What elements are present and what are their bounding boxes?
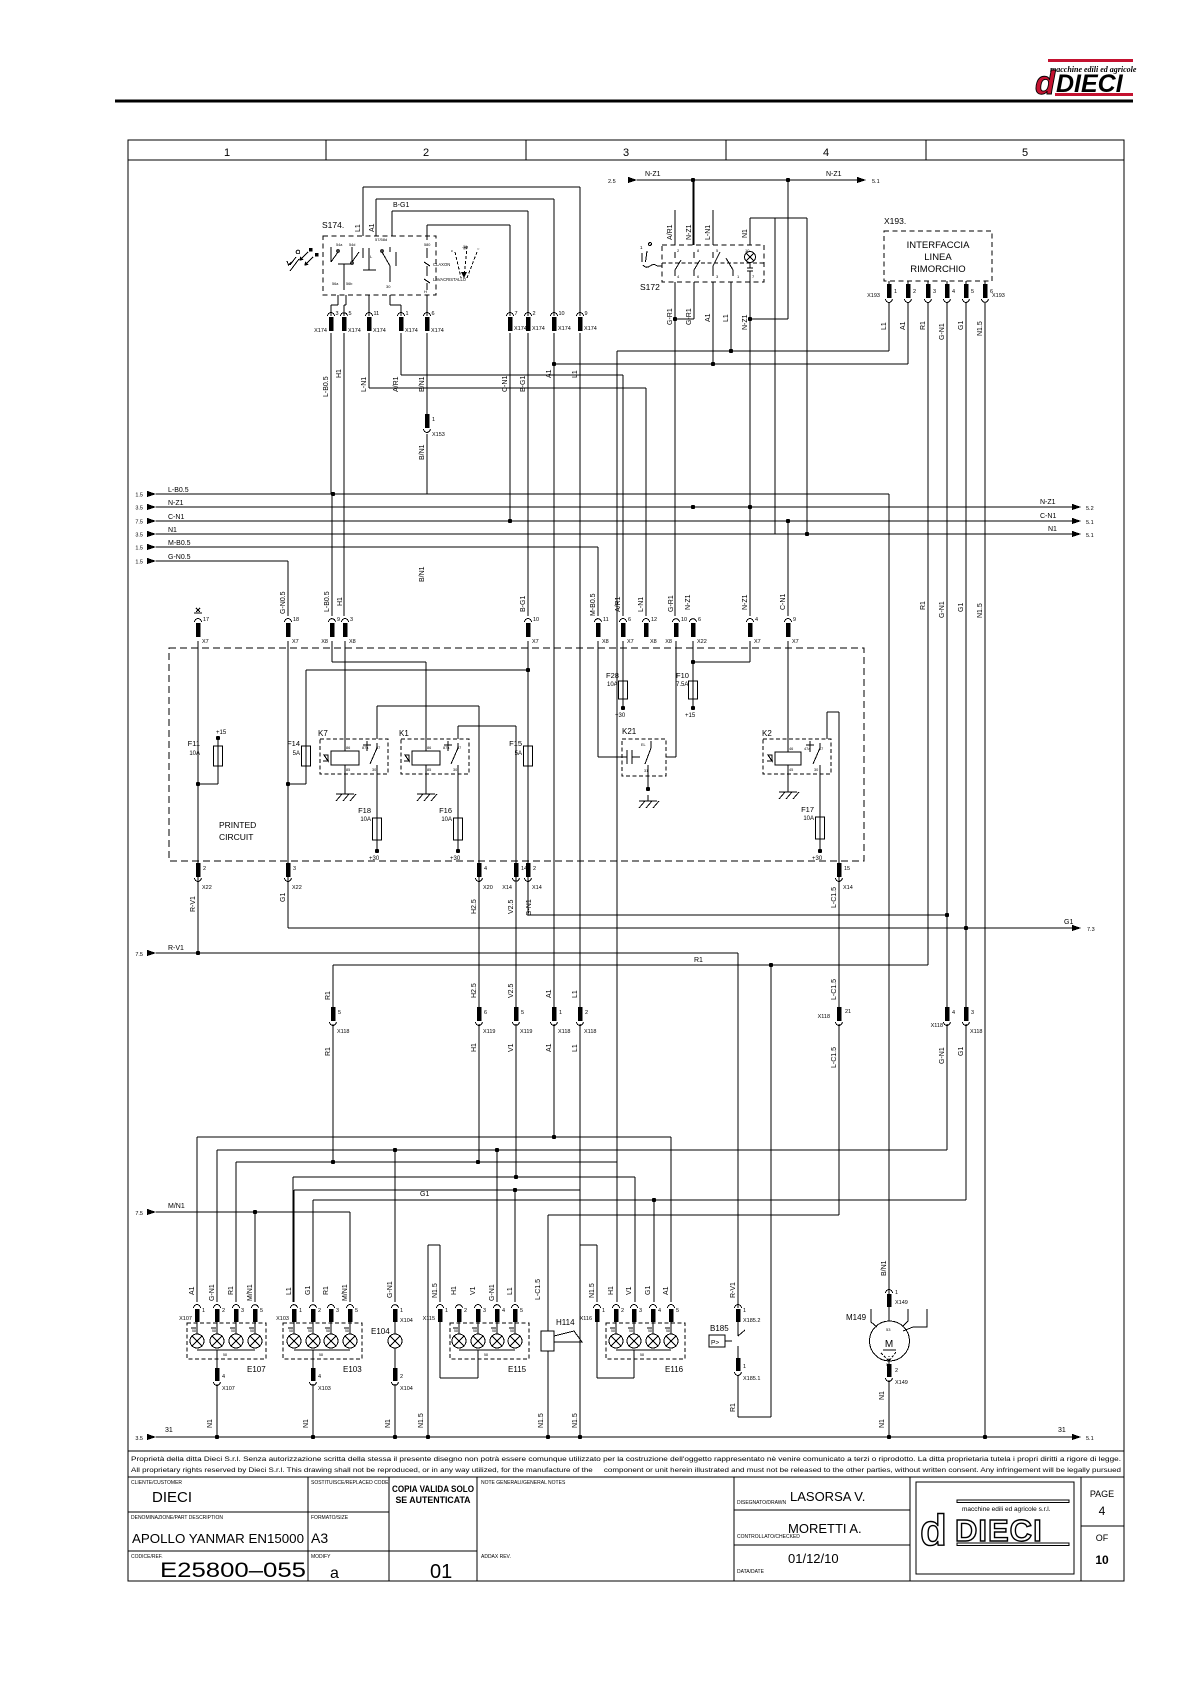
- svg-text:1: 1: [743, 1364, 746, 1370]
- svg-text:G1: G1: [645, 1286, 652, 1295]
- svg-text:580: 580: [424, 243, 430, 247]
- svg-text:L1: L1: [881, 322, 888, 330]
- svg-text:X107: X107: [222, 1386, 235, 1392]
- svg-text:H1: H1: [337, 597, 344, 606]
- connector X118-5: [325, 991, 349, 1056]
- lamp cluster E116: [580, 1283, 685, 1378]
- svg-text:G-N1: G-N1: [939, 601, 946, 618]
- bus G1 to 7.3: [288, 877, 1095, 933]
- wire X22-6 to X7-4 jog: [693, 641, 750, 662]
- svg-text:1: 1: [559, 1010, 562, 1016]
- svg-text:M/N1: M/N1: [342, 1284, 349, 1301]
- svg-text:57/58d: 57/58d: [375, 237, 387, 242]
- svg-text:X118: X118: [931, 1023, 943, 1029]
- wire H1 X174-5 to X8-3: [343, 333, 345, 616]
- svg-text:4: 4: [952, 1010, 955, 1016]
- svg-text:4: 4: [502, 1308, 505, 1314]
- svg-text:9: 9: [337, 617, 340, 623]
- wire drop to E116 via x617: [616, 351, 618, 1162]
- svg-text:X174: X174: [532, 326, 545, 332]
- svg-text:L1: L1: [723, 314, 730, 322]
- svg-text:A3: A3: [311, 1530, 328, 1546]
- connector X7-18: [285, 617, 300, 645]
- svg-text:6: 6: [628, 617, 631, 623]
- svg-text:COPIA VALIDA SOLO: COPIA VALIDA SOLO: [392, 1484, 474, 1494]
- bus M/N1: [135, 1203, 350, 1302]
- bus N-Z1: [135, 499, 1093, 512]
- svg-text:58: 58: [473, 1329, 477, 1333]
- svg-text:N1: N1: [1048, 526, 1057, 533]
- svg-text:11: 11: [603, 617, 609, 623]
- bus G-N0.5: [135, 554, 288, 616]
- svg-text:E103: E103: [343, 1365, 362, 1374]
- svg-text:B185: B185: [710, 1324, 729, 1333]
- svg-text:9: 9: [793, 617, 796, 623]
- top rule: [115, 100, 1133, 103]
- svg-text:M/N1: M/N1: [168, 1203, 185, 1210]
- svg-text:C-N1: C-N1: [168, 514, 184, 521]
- svg-text:+30: +30: [812, 856, 823, 862]
- svg-text:2: 2: [585, 1010, 588, 1016]
- svg-text:X193: X193: [992, 293, 1005, 299]
- svg-text:A/R1: A/R1: [667, 224, 674, 240]
- svg-text:N1.5: N1.5: [977, 603, 984, 618]
- svg-text:N1.5: N1.5: [432, 1283, 439, 1298]
- svg-text:3: 3: [639, 1308, 642, 1314]
- svg-text:X185.1: X185.1: [743, 1376, 760, 1382]
- svg-text:B-G1: B-G1: [393, 202, 409, 209]
- svg-text:F15: F15: [509, 739, 522, 748]
- svg-text:X118: X118: [337, 1029, 349, 1035]
- svg-text:G-N1: G-N1: [489, 1284, 496, 1301]
- wire labels below X174: [323, 369, 579, 397]
- wire G-R1 S172-6 jog: [675, 282, 694, 325]
- svg-text:3: 3: [336, 311, 339, 317]
- connector X8-9: [321, 494, 340, 645]
- svg-text:4: 4: [952, 289, 955, 295]
- svg-text:F14: F14: [287, 739, 300, 748]
- connector X8-10: [665, 595, 687, 645]
- connector X8-3: [337, 597, 356, 645]
- motor M149: [846, 1309, 927, 1367]
- svg-text:RIMORCHIO: RIMORCHIO: [910, 264, 965, 275]
- wire A1 from S174 to X174-10: [369, 199, 554, 316]
- svg-text:R1: R1: [323, 1286, 330, 1295]
- svg-text:5.1: 5.1: [1086, 1436, 1094, 1442]
- svg-text:N1: N1: [385, 1419, 392, 1428]
- horn H114: [535, 1215, 582, 1439]
- bus L-B0.5: [135, 487, 889, 499]
- connector X118-3: [958, 1007, 982, 1056]
- svg-text:58: 58: [611, 1329, 615, 1333]
- svg-text:A/R1: A/R1: [393, 376, 400, 392]
- svg-text:INTERFACCIA: INTERFACCIA: [907, 240, 970, 251]
- svg-text:X185.2: X185.2: [743, 1318, 760, 1324]
- connector X107-4: [207, 1368, 235, 1439]
- svg-text:10A: 10A: [803, 816, 814, 822]
- svg-text:A1: A1: [369, 223, 376, 232]
- svg-text:56a: 56a: [332, 282, 339, 286]
- wire L-C1.5 X14-15 to X118-21: [838, 877, 840, 1007]
- svg-text:45: 45: [789, 768, 793, 772]
- svg-text:X103: X103: [276, 1316, 289, 1322]
- svg-text:6: 6: [432, 311, 435, 317]
- connector X7-10: [520, 596, 539, 645]
- svg-text:V1: V1: [508, 1043, 515, 1052]
- title note generali: [481, 1480, 566, 1486]
- wire B/N1 X153 to M149 via bus: [419, 434, 889, 582]
- svg-text:N1: N1: [168, 527, 177, 534]
- fuse F17: [801, 805, 824, 862]
- title block frame: [128, 1477, 1124, 1581]
- svg-text:4: 4: [755, 617, 758, 623]
- svg-text:G-N0.5: G-N0.5: [168, 554, 191, 561]
- svg-text:3: 3: [293, 866, 296, 872]
- svg-text:X174: X174: [405, 328, 418, 334]
- svg-text:A1: A1: [546, 369, 553, 378]
- svg-text:X174: X174: [431, 328, 444, 334]
- svg-text:Proprietà della ditta Dieci S.: Proprietà della ditta Dieci S.r.l. Senza…: [131, 1456, 1121, 1463]
- svg-text:X119: X119: [520, 1029, 532, 1035]
- wire C-N1 to K2: [787, 641, 789, 752]
- svg-text:LASORSA V.: LASORSA V.: [790, 1489, 865, 1504]
- svg-text:7.5: 7.5: [135, 520, 143, 526]
- connector X119-6: [471, 983, 495, 1052]
- connector X8-12: [638, 597, 657, 645]
- svg-text:F17: F17: [801, 805, 814, 814]
- svg-text:a: a: [330, 1565, 339, 1582]
- svg-text:6: 6: [484, 1010, 487, 1016]
- wire G-R1 to K21: [666, 641, 676, 757]
- svg-text:DIECI: DIECI: [152, 1489, 192, 1506]
- svg-text:58: 58: [484, 1353, 488, 1357]
- svg-text:X193.: X193.: [884, 216, 906, 226]
- svg-text:G1: G1: [305, 1286, 312, 1295]
- svg-text:+30: +30: [369, 856, 380, 862]
- svg-text:5: 5: [676, 1308, 679, 1314]
- svg-text:4: 4: [318, 1374, 321, 1380]
- connector X22-3: [280, 863, 302, 902]
- svg-text:3.5: 3.5: [135, 1436, 143, 1442]
- svg-text:7.5A: 7.5A: [676, 682, 688, 688]
- ground K7: [336, 788, 356, 801]
- svg-text:L1: L1: [355, 224, 362, 232]
- svg-text:5: 5: [971, 289, 974, 295]
- svg-text:30: 30: [814, 768, 818, 772]
- relay K21: [622, 727, 666, 791]
- wire N1.5 riser E115: [418, 1245, 440, 1439]
- svg-text:L-B0.5: L-B0.5: [323, 376, 330, 397]
- svg-text:A1: A1: [663, 1286, 670, 1295]
- svg-text:X153: X153: [432, 432, 445, 438]
- wire B/N1 to M149: [881, 494, 889, 1302]
- svg-text:X7: X7: [532, 639, 539, 645]
- svg-text:11: 11: [374, 311, 380, 317]
- svg-text:3.5: 3.5: [135, 506, 143, 512]
- svg-text:K21: K21: [622, 727, 637, 736]
- wire K1-87 to X14-14: [458, 726, 516, 863]
- svg-text:4: 4: [222, 1374, 225, 1380]
- svg-text:2: 2: [621, 1308, 624, 1314]
- connector X118-21: [818, 979, 852, 1068]
- svg-text:G1: G1: [958, 1047, 965, 1056]
- svg-text:+30: +30: [615, 713, 626, 719]
- junction N-Z1/C-N1 drop: [786, 178, 790, 182]
- bus 31: [135, 1427, 1093, 1442]
- svg-text:X193: X193: [867, 293, 880, 299]
- svg-text:N1: N1: [879, 1391, 886, 1400]
- svg-text:G-N1: G-N1: [939, 1047, 946, 1064]
- svg-text:S172: S172: [640, 282, 660, 292]
- svg-text:58: 58: [250, 1329, 254, 1333]
- svg-text:X14: X14: [532, 885, 542, 891]
- wire G1 fan: [313, 1024, 966, 1302]
- svg-text:17: 17: [203, 617, 209, 623]
- svg-text:3: 3: [336, 1308, 339, 1314]
- svg-text:PRINTED: PRINTED: [219, 820, 256, 830]
- svg-text:10A: 10A: [607, 682, 618, 688]
- svg-text:2: 2: [318, 1308, 321, 1314]
- svg-text:L1: L1: [507, 1287, 514, 1295]
- svg-text:A1: A1: [705, 313, 712, 322]
- svg-text:R1: R1: [325, 1047, 332, 1056]
- svg-text:X174: X174: [584, 326, 597, 332]
- title formato: [311, 1515, 349, 1546]
- svg-text:CLAXON: CLAXON: [433, 262, 450, 267]
- svg-text:B/N1: B/N1: [419, 444, 426, 460]
- svg-text:01/12/10: 01/12/10: [788, 1551, 839, 1566]
- svg-text:N-Z1: N-Z1: [168, 500, 184, 507]
- svg-text:G-N1: G-N1: [526, 899, 533, 916]
- wire A/R1 to X7-6: [401, 375, 623, 616]
- svg-text:X119: X119: [483, 1029, 495, 1035]
- svg-text:3: 3: [350, 617, 353, 623]
- svg-text:4: 4: [484, 866, 487, 872]
- ground K1: [417, 788, 437, 801]
- svg-text:d: d: [920, 1506, 947, 1555]
- svg-text:9: 9: [585, 311, 588, 317]
- svg-text:DISEGNATO/DRAWN: DISEGNATO/DRAWN: [737, 1500, 786, 1506]
- svg-text:3: 3: [971, 1010, 974, 1016]
- svg-text:SE AUTENTICATA: SE AUTENTICATA: [395, 1495, 471, 1505]
- connector X7-6: [615, 596, 634, 645]
- DIECI logo top right: [1035, 59, 1137, 101]
- svg-text:87a: 87a: [362, 746, 369, 750]
- svg-text:L-N1: L-N1: [361, 377, 368, 392]
- svg-text:c: c: [451, 248, 453, 253]
- fuse F16: [439, 806, 462, 862]
- svg-text:M-B0.5: M-B0.5: [590, 593, 597, 616]
- svg-text:58: 58: [640, 1353, 644, 1357]
- svg-text:R1: R1: [694, 957, 703, 964]
- svg-text:C-N1: C-N1: [780, 594, 787, 610]
- svg-text:N-Z1: N-Z1: [826, 171, 842, 178]
- wire L1 X193-1: [617, 282, 889, 353]
- svg-text:E104: E104: [371, 1327, 390, 1336]
- svg-text:85: 85: [427, 768, 431, 772]
- svg-text:+15: +15: [685, 713, 696, 719]
- svg-text:X20: X20: [483, 885, 493, 891]
- svg-text:CIRCUIT: CIRCUIT: [219, 832, 253, 842]
- svg-text:58: 58: [492, 1329, 496, 1333]
- svg-text:L-C1.5: L-C1.5: [535, 1279, 542, 1300]
- junction A1 drop mid: [552, 362, 556, 366]
- svg-text:+30: +30: [450, 856, 461, 862]
- svg-text:2: 2: [203, 866, 206, 872]
- connector X118-4: [931, 1007, 956, 1064]
- svg-text:1: 1: [299, 1308, 302, 1314]
- svg-text:R1: R1: [920, 321, 927, 330]
- svg-text:A1: A1: [189, 1286, 196, 1295]
- title data: [737, 1551, 839, 1575]
- svg-text:R-V1: R-V1: [730, 1282, 737, 1298]
- column header row: [128, 140, 1124, 160]
- svg-text:N1: N1: [742, 229, 749, 238]
- svg-text:85: 85: [346, 768, 350, 772]
- svg-text:N1: N1: [207, 1419, 214, 1428]
- svg-text:5.1: 5.1: [1086, 533, 1094, 539]
- svg-text:X8: X8: [602, 639, 609, 645]
- svg-text:macchine edili ed agricole s.r: macchine edili ed agricole s.r.l.: [962, 1506, 1051, 1513]
- wire C-N1 X174-7 to bus: [508, 333, 512, 523]
- S174 stalk icon left: [287, 248, 319, 271]
- connector X174 pins 3,5,11,1,6: [314, 311, 444, 334]
- bus R1: [333, 957, 928, 1417]
- svg-text:F16: F16: [439, 806, 452, 815]
- svg-text:1: 1: [224, 147, 230, 159]
- svg-text:MODIFY: MODIFY: [311, 1554, 331, 1560]
- svg-text:L-B0.5: L-B0.5: [168, 487, 189, 494]
- svg-text:B/N1: B/N1: [419, 566, 426, 582]
- svg-text:X149: X149: [895, 1300, 908, 1306]
- wire L1 S172-1 to X193-1: [723, 314, 730, 322]
- wire G-R1 S172-4 down: [667, 282, 677, 616]
- wire L1 fan: [294, 1024, 582, 1439]
- svg-text:H2.5: H2.5: [471, 983, 478, 998]
- svg-text:3: 3: [483, 1308, 486, 1314]
- fuse F11: [188, 730, 227, 786]
- svg-text:H1: H1: [451, 1286, 458, 1295]
- svg-text:OF: OF: [1096, 1533, 1109, 1543]
- svg-text:C-N1: C-N1: [1040, 513, 1056, 520]
- svg-text:X7: X7: [202, 639, 209, 645]
- svg-text:X22: X22: [292, 885, 302, 891]
- svg-text:L-C1.5: L-C1.5: [831, 887, 838, 908]
- svg-text:58: 58: [648, 1329, 652, 1333]
- svg-text:L-C1.5: L-C1.5: [831, 979, 838, 1000]
- svg-text:5A: 5A: [293, 751, 300, 757]
- svg-text:54a: 54a: [336, 243, 343, 247]
- wire R1 X193-3 to R1 line: [920, 303, 928, 965]
- wire L1 from S174 to X174-9: [355, 187, 580, 316]
- relay K7: [318, 641, 388, 818]
- svg-text:7: 7: [515, 311, 518, 317]
- svg-text:31: 31: [1058, 1427, 1066, 1434]
- wire A1 fan: [197, 1024, 671, 1302]
- wire V2.5 X14-14 to X119-5: [515, 877, 517, 1007]
- svg-text:V2.5: V2.5: [508, 983, 515, 998]
- svg-text:5.1: 5.1: [872, 179, 880, 185]
- S172 lever icon: [640, 242, 662, 267]
- title cliente: [131, 1480, 192, 1506]
- svg-text:1.5: 1.5: [135, 560, 143, 566]
- svg-text:CODICE/REF.: CODICE/REF.: [131, 1554, 163, 1560]
- svg-text:EL: EL: [641, 743, 646, 747]
- svg-text:2: 2: [913, 289, 916, 295]
- svg-text:L1: L1: [286, 1287, 293, 1295]
- wire N-Z1 into S172: [686, 180, 694, 245]
- wire G-N1 X193-4 to X118-4: [939, 303, 949, 1007]
- svg-text:H1: H1: [608, 1286, 615, 1295]
- wire G-N1 jog X14-2 to X118-4: [528, 877, 947, 915]
- svg-text:DIECI: DIECI: [1056, 70, 1124, 98]
- svg-text:N-Z1: N-Z1: [685, 594, 692, 610]
- fuse F15: [509, 641, 532, 863]
- svg-text:X174: X174: [348, 328, 361, 334]
- svg-text:18: 18: [293, 617, 299, 623]
- svg-text:1.5: 1.5: [135, 546, 143, 552]
- svg-text:2: 2: [423, 147, 429, 159]
- svg-text:5: 5: [349, 311, 352, 317]
- svg-text:N-Z1: N-Z1: [645, 171, 661, 178]
- svg-text:N1.5: N1.5: [418, 1413, 425, 1428]
- wire L-C1.5 to H114: [548, 1024, 839, 1215]
- svg-text:X174: X174: [514, 326, 527, 332]
- svg-text:G-N1: G-N1: [209, 1284, 216, 1301]
- connector X20-4: [471, 863, 493, 914]
- bus M-B0.5: [135, 540, 598, 616]
- wire A1 X193-2: [554, 303, 908, 366]
- svg-text:A1: A1: [546, 1043, 553, 1052]
- svg-text:M: M: [885, 1339, 893, 1350]
- svg-text:6: 6: [698, 617, 701, 623]
- wire L-B0.5 X174-3 to bus: [330, 333, 332, 494]
- svg-text:ADDAX REV.: ADDAX REV.: [481, 1554, 511, 1560]
- svg-text:1: 1: [432, 417, 435, 423]
- ground K2: [779, 786, 799, 799]
- svg-text:58: 58: [308, 1329, 312, 1333]
- svg-text:E116: E116: [665, 1365, 684, 1374]
- connector X174 pins 7,2,10,9: [507, 311, 597, 332]
- svg-text:N1.5: N1.5: [589, 1283, 596, 1298]
- wire A/R1 X174-1 down: [400, 333, 402, 375]
- connector X193 pins: [867, 281, 1005, 302]
- svg-text:L-B0.5: L-B0.5: [324, 591, 331, 612]
- svg-text:X14: X14: [843, 885, 853, 891]
- svg-text:58: 58: [223, 1353, 227, 1357]
- wire N1.5 riser E116: [580, 1245, 597, 1302]
- svg-text:F18: F18: [358, 806, 371, 815]
- connector X14-14: [502, 863, 527, 914]
- svg-text:L1: L1: [572, 990, 579, 998]
- svg-text:N-Z1: N-Z1: [686, 224, 693, 240]
- svg-text:12: 12: [651, 617, 657, 623]
- svg-text:X116: X116: [580, 1316, 592, 1322]
- svg-text:G-R1: G-R1: [686, 308, 693, 325]
- wire A1 X174-10 to X118-1: [553, 333, 555, 1007]
- svg-text:APOLLO YANMAR EN15000: APOLLO YANMAR EN15000: [132, 1532, 304, 1546]
- connector X118-1: [546, 989, 570, 1052]
- svg-text:30: 30: [453, 768, 457, 772]
- connector X149-1: [886, 1290, 908, 1321]
- svg-text:7.3: 7.3: [1087, 927, 1095, 933]
- svg-text:X22: X22: [697, 639, 707, 645]
- svg-text:LINEA: LINEA: [924, 252, 952, 263]
- svg-text:B-G1: B-G1: [520, 596, 527, 612]
- svg-text:X22: X22: [202, 885, 212, 891]
- svg-text:X118: X118: [584, 1029, 596, 1035]
- wire N-Z1 S172-7 to X7-4: [742, 282, 752, 616]
